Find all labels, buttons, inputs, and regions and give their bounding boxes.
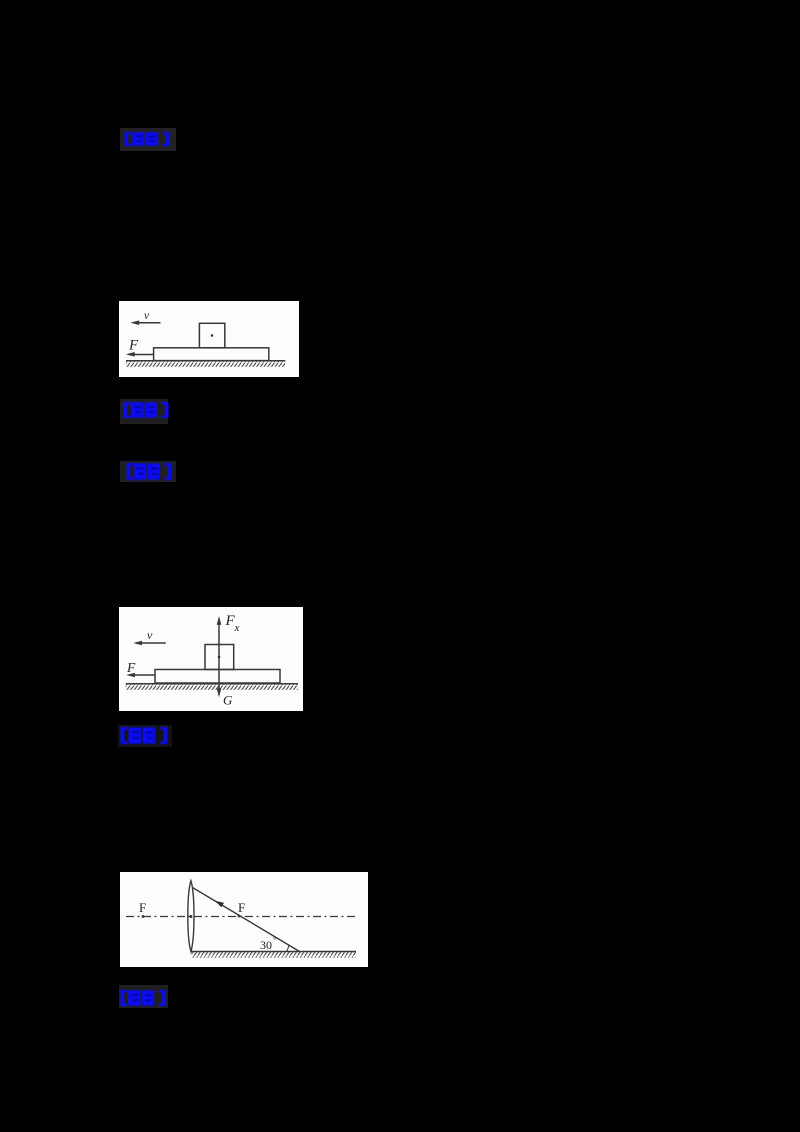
ground line: [126, 683, 298, 685]
label 5 blue bracketed text: [120, 990, 166, 1006]
lens: [188, 881, 194, 952]
force arrow F: [129, 354, 154, 356]
svg-text:F: F: [126, 660, 136, 675]
svg-text:30: 30: [260, 938, 272, 952]
label 4 blue bracketed text: [120, 727, 168, 744]
label 1 background box: [120, 128, 176, 151]
ground line: [192, 951, 357, 953]
plank: [154, 348, 269, 361]
light ray: [193, 888, 300, 952]
svg-text:v: v: [144, 310, 150, 322]
svg-text:F: F: [238, 900, 245, 915]
svg-text:G: G: [223, 693, 233, 708]
figure 1: block on plank moving left: [119, 301, 299, 377]
label 2 blue bracketed text: [123, 402, 169, 418]
ground hatching: [126, 684, 298, 690]
label 2 background box: [120, 399, 168, 424]
svg-text:°: °: [273, 935, 277, 945]
force arrow F: [129, 674, 155, 676]
label 3 blue bracketed text: [126, 463, 172, 480]
label 4 background box: [118, 725, 172, 747]
ground line: [126, 360, 285, 362]
ground hatching: [126, 361, 285, 367]
block with dot: [199, 323, 224, 348]
label 1 blue bracketed text: [124, 132, 170, 146]
velocity arrow v: [136, 642, 166, 644]
figure 2: block on plank with support force and gravity: [119, 607, 303, 711]
optical axis (dash-dot): [126, 916, 356, 918]
velocity arrow v: [133, 322, 161, 324]
ground hatching: [192, 952, 357, 958]
label 5 background box: [119, 985, 168, 1008]
svg-text:v: v: [147, 628, 153, 642]
svg-text:F: F: [139, 900, 146, 915]
figure 3: lens, focal points F, ray at 30 degrees to ground: [120, 872, 368, 967]
plank: [155, 670, 280, 684]
support force arrow F_zhi (up) and gravity G (down): [218, 623, 220, 691]
svg-text:x: x: [234, 622, 240, 634]
block with dot: [205, 645, 234, 670]
svg-text:F: F: [128, 338, 139, 354]
label 3 background box: [120, 461, 176, 482]
